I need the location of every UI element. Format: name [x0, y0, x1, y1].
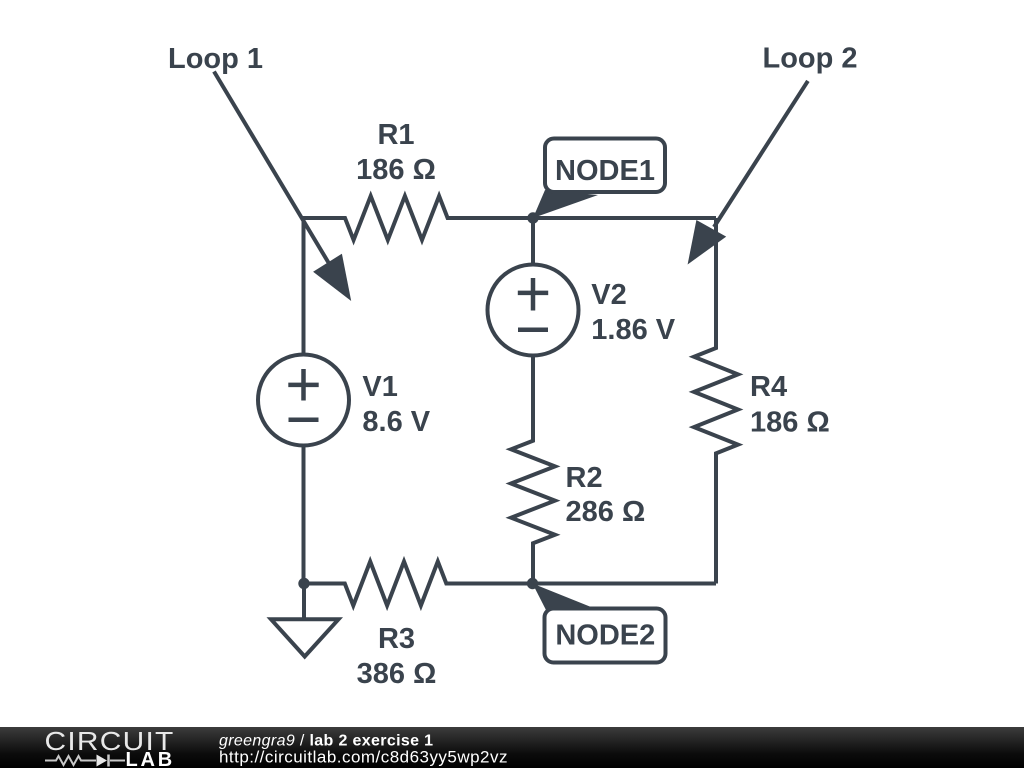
svg-text:186 Ω: 186 Ω: [750, 407, 830, 439]
svg-text:http://circuitlab.com/c8d63yy5: http://circuitlab.com/c8d63yy5wp2vz: [219, 748, 508, 767]
svg-text:R3: R3: [378, 623, 415, 655]
svg-text:8.6 V: 8.6 V: [362, 406, 430, 438]
svg-text:R4: R4: [750, 371, 787, 403]
svg-text:LAB: LAB: [126, 749, 176, 768]
svg-text:V1: V1: [362, 371, 397, 403]
svg-text:NODE1: NODE1: [555, 155, 655, 187]
svg-text:V2: V2: [591, 279, 626, 311]
svg-text:Loop 2: Loop 2: [763, 43, 858, 75]
svg-text:286 Ω: 286 Ω: [566, 496, 646, 528]
svg-text:386 Ω: 386 Ω: [357, 658, 437, 690]
svg-text:186 Ω: 186 Ω: [356, 154, 436, 186]
svg-text:R2: R2: [566, 462, 603, 494]
svg-text:Loop 1: Loop 1: [168, 43, 263, 75]
svg-text:R1: R1: [377, 119, 414, 151]
svg-text:NODE2: NODE2: [555, 620, 655, 652]
svg-text:1.86 V: 1.86 V: [591, 314, 675, 346]
